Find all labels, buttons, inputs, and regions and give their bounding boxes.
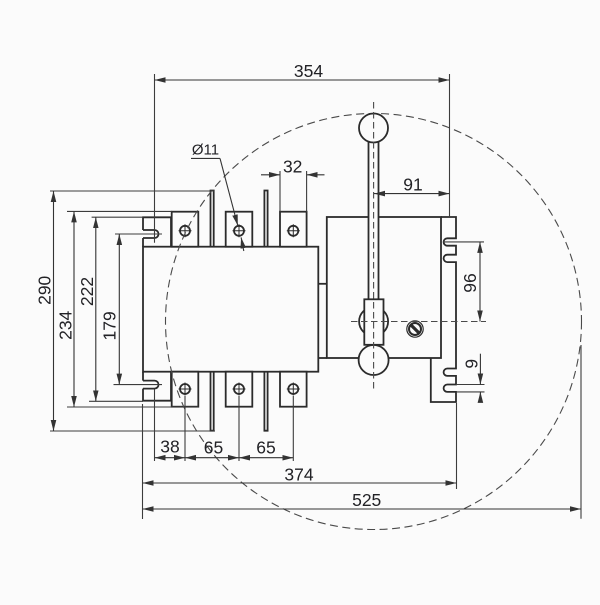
extension line hole 3 down: [292, 396, 294, 461]
bottom terminal tab 1: [172, 372, 199, 407]
dimension line 91: [374, 193, 450, 195]
extension line tab3 right edge (32 ref): [306, 171, 308, 212]
bottom terminal hole 3: [287, 383, 300, 396]
extension line circle right (525 right ref): [580, 345, 582, 519]
svg-text:91: 91: [403, 175, 422, 195]
bottom phase separator 1: [211, 372, 214, 431]
mechanism box: [327, 217, 441, 358]
lower ball joint: [359, 345, 389, 375]
right mounting plate with keyhole slots: [431, 217, 456, 402]
dimension line 234: [73, 211, 75, 407]
dimension line 179: [118, 234, 120, 385]
svg-text:234: 234: [56, 310, 76, 339]
dimension line 9 bottom arrow: [479, 392, 481, 402]
extension line slot center top (354 left ref): [154, 74, 156, 243]
handle swing circle (dashed): [166, 114, 582, 530]
svg-text:96: 96: [460, 273, 480, 292]
bottom terminal hole 2: [233, 383, 246, 396]
top terminal tab 3: [280, 212, 307, 247]
top terminal hole 2: [233, 224, 246, 237]
svg-text:65: 65: [204, 438, 223, 458]
extension line hole 1 down: [184, 396, 186, 461]
extension line slot center bottom (179 bottom ref): [114, 384, 163, 386]
dimension line 65 first: [185, 457, 239, 459]
handle vertical centerline (dashed): [373, 102, 375, 390]
leader lower arrow diameter 11: [241, 237, 244, 251]
dimension line 32 left arrow: [261, 174, 280, 176]
bottom terminal tab 3: [280, 372, 307, 407]
extension line plate right (374 right ref): [456, 403, 458, 489]
extension line right (354 / 91 right ref): [449, 74, 451, 217]
dimension line 354: [155, 79, 450, 81]
svg-text:9: 9: [462, 359, 482, 369]
dimension line 9 top arrow: [479, 354, 481, 385]
main switch body: [143, 247, 318, 372]
svg-text:32: 32: [283, 157, 302, 177]
extension line separators bottom (290 bottom ref): [50, 430, 215, 432]
dimension line 38: [155, 457, 186, 459]
handle shaft: [369, 142, 379, 300]
top phase separator 1: [211, 191, 214, 247]
extension line bracket bottom (222 bottom ref): [89, 400, 143, 402]
extension line plate slot 4 top lip (9 ref): [456, 384, 485, 386]
bottom mounting bracket with slot: [143, 372, 171, 401]
dimension line 65 second: [239, 457, 293, 459]
extension line body left edge (374/525 left ref): [142, 404, 144, 519]
extension line slot center top (179 top ref): [115, 233, 162, 235]
pivot horizontal centerline (dashed): [351, 321, 486, 323]
extension line tab bottom (234 bottom ref): [67, 406, 198, 408]
top phase separator 2: [264, 191, 267, 247]
extension line hole 2 down: [238, 396, 240, 461]
bottom terminal tab 2: [226, 372, 253, 407]
dimension line 374: [143, 482, 457, 484]
dimension line 525: [143, 508, 582, 510]
screw head: [407, 321, 423, 337]
extension line plate slot 1 (96 top ref): [443, 241, 484, 243]
box bottom edge extension to body: [318, 357, 327, 359]
dimension line 96: [479, 242, 481, 322]
top mounting bracket with slot: [143, 217, 171, 246]
top terminal tab 2: [226, 212, 253, 247]
extension line bracket top (222 top ref): [92, 216, 143, 218]
top terminal hole 1: [179, 224, 192, 237]
svg-text:179: 179: [99, 311, 119, 340]
extension line plate slot 4 bottom lip (9 ref): [456, 391, 485, 393]
svg-text:222: 222: [77, 277, 97, 306]
bottom terminal hole 1: [179, 383, 192, 396]
handle pivot circle: [359, 307, 388, 336]
leader line diameter 11: [191, 157, 220, 159]
top terminal hole 3: [287, 224, 300, 237]
extension line tab top (234 top ref): [67, 210, 172, 212]
svg-text:38: 38: [160, 437, 179, 457]
dimension line 290: [53, 191, 55, 431]
svg-text:374: 374: [284, 464, 313, 484]
extension line slot center bottom (38 left ref): [154, 389, 156, 461]
svg-text:65: 65: [256, 438, 275, 458]
svg-text:354: 354: [294, 61, 323, 81]
svg-text:290: 290: [35, 275, 55, 304]
handle knob ball: [359, 114, 388, 143]
dimension line 222: [95, 217, 97, 401]
handle grip block: [364, 299, 383, 345]
top terminal tab 1: [172, 212, 199, 247]
dimension line 32 right arrow: [307, 174, 325, 176]
extension line tab3 left edge (32 ref): [279, 171, 281, 212]
bottom phase separator 2: [264, 372, 267, 431]
extension line separators top (290 top ref): [50, 190, 214, 192]
connector between body and mechanism box: [318, 283, 327, 285]
svg-text:525: 525: [352, 490, 381, 510]
svg-text:Ø11: Ø11: [192, 142, 219, 159]
